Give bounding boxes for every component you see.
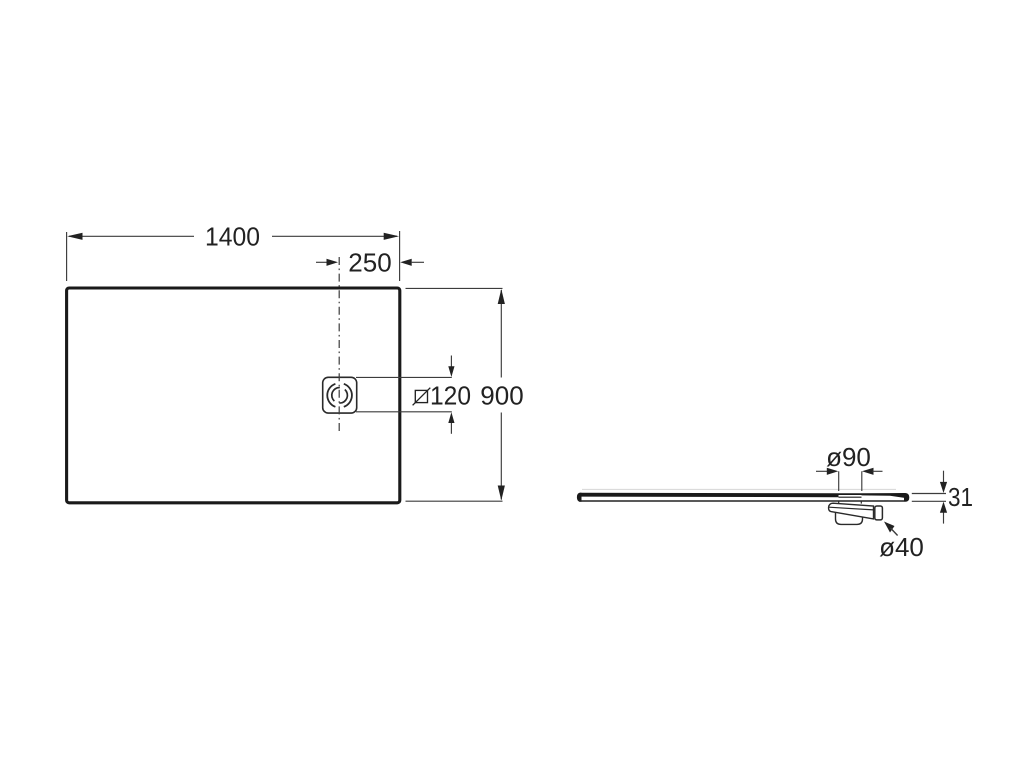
dimension 1400 line [69, 235, 397, 237]
dimension o90 label [826, 442, 871, 472]
tray plan outline [67, 288, 400, 503]
dimension 31 label [948, 482, 973, 512]
dimension 900 arrow bottom (points down) [498, 486, 505, 501]
dimension 120 label [430, 381, 471, 411]
dimension 120 arrow top (points down) [448, 356, 454, 378]
dimension 120 extension line bottom [356, 411, 452, 413]
dimension 900 label [480, 381, 523, 411]
dimension 1400 extension line left [66, 232, 68, 281]
drain symbol rounded square [323, 377, 357, 413]
side view tray right end cap [904, 493, 909, 502]
dimension 120 arrow bottom (points up) [448, 412, 454, 434]
dimension 250 line tail left [316, 261, 328, 263]
dimension o90 extension lines [839, 471, 862, 491]
square-120 symbol [413, 388, 431, 406]
trap connector ticks [839, 502, 862, 504]
side view far rim faint line [582, 488, 896, 490]
dimension 900 line [500, 290, 502, 500]
dimension 250 label [348, 247, 391, 277]
side view tray top band left section [580, 493, 839, 497]
trap outlet flange [875, 506, 883, 520]
dimension 900 arrow top (points up) [498, 289, 505, 304]
dimension 1400 arrow left [67, 233, 82, 240]
svg-text:250: 250 [348, 247, 391, 277]
dimension 120 extension line top [356, 376, 452, 378]
dimension o40 leader arrow [884, 522, 898, 536]
dimension 31 arrow bottom (points up) [940, 502, 947, 524]
side view tray bottom line [579, 500, 904, 502]
side view tray left end cap [577, 493, 582, 502]
trap cup [836, 509, 863, 524]
dimension 1400 arrow right [384, 233, 399, 240]
side view tray top band right wedge [862, 493, 905, 498]
dimension 31 arrow top (points down) [940, 471, 947, 493]
dimension 1400 extension line right / shared with 250 [399, 231, 401, 281]
dimension 1400 label [205, 221, 260, 251]
svg-text:120: 120 [430, 381, 471, 411]
svg-text:31: 31 [948, 482, 973, 512]
svg-text:1400: 1400 [205, 221, 260, 251]
dimension o40 label [879, 532, 924, 562]
dimension o90 arrow left [816, 468, 838, 475]
dimension 31 extension line top [912, 493, 946, 495]
drain symbol inner circle arcs [330, 386, 350, 405]
dimension 900 extension line bottom [406, 500, 503, 502]
dimension 31 extension line bottom [912, 500, 946, 502]
dimension o90 arrow right [862, 468, 883, 475]
svg-text:ø90: ø90 [826, 442, 871, 472]
svg-text:ø40: ø40 [879, 532, 924, 562]
dimension 250 arrow left (points right at centerline) [327, 259, 339, 266]
drain symbol outer circle arcs [327, 384, 352, 407]
side view drain recess slot lines [839, 493, 862, 498]
svg-text:900: 900 [480, 381, 523, 411]
dimension 900 extension line top [406, 287, 503, 289]
trap horn body [829, 503, 874, 519]
drain centerline (dash-dot) [338, 257, 340, 434]
dimension 250 arrow right (points left at edge) [400, 259, 424, 266]
